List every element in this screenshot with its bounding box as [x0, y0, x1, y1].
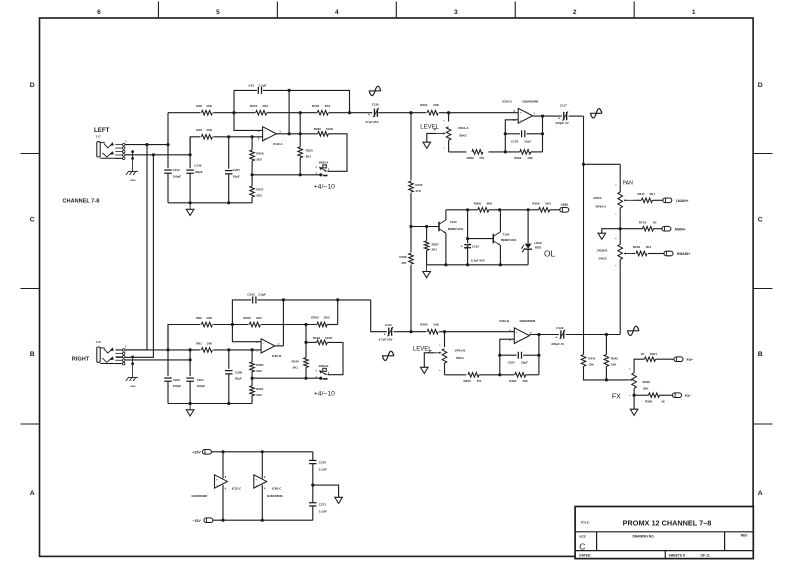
- junction: [261, 519, 264, 522]
- connector LMAIN+: [663, 198, 689, 203]
- svg-text:OL: OL: [544, 248, 556, 258]
- svg-text:D: D: [758, 82, 763, 89]
- resistor R150 2K2: [312, 104, 331, 115]
- junction: [227, 402, 230, 405]
- svg-text:R299: R299: [467, 156, 475, 160]
- svg-text:R217: R217: [638, 192, 646, 196]
- junction: [304, 377, 307, 380]
- svg-text:R261: R261: [256, 387, 264, 391]
- wire: [584, 366, 629, 380]
- svg-text:NJM4580M: NJM4580M: [523, 99, 539, 103]
- svg-text:PROMX 12 CHANNEL 7–8: PROMX 12 CHANNEL 7–8: [623, 518, 712, 527]
- wire: [305, 325, 307, 358]
- wire output: [276, 133, 300, 135]
- wire: [300, 133, 318, 135]
- junction: [537, 333, 540, 336]
- svg-text:C: C: [579, 541, 585, 551]
- resistor R260 2K2: [250, 362, 264, 373]
- junction: [231, 323, 234, 326]
- wire tip-normal to RIGHT jack: [116, 145, 147, 350]
- svg-text:REV: REV: [741, 534, 748, 538]
- svg-text:A: A: [30, 490, 35, 497]
- svg-text:100µF: 100µF: [194, 170, 203, 174]
- wire: [449, 151, 467, 153]
- svg-text:NJM4580M: NJM4580M: [192, 494, 208, 498]
- svg-text:R257: R257: [256, 187, 264, 191]
- svg-text:2K2: 2K2: [324, 315, 330, 319]
- wire +4/-10 B: [252, 377, 320, 379]
- wire: [426, 227, 428, 241]
- svg-text:10K: 10K: [206, 104, 212, 108]
- svg-text:SHEETS 6: SHEETS 6: [669, 554, 686, 558]
- junction: [227, 135, 230, 138]
- svg-text:+: +: [384, 332, 386, 336]
- svg-text:R308: R308: [474, 201, 482, 205]
- wire: [189, 381, 191, 403]
- svg-text:−: −: [256, 484, 258, 488]
- svg-text:2: 2: [573, 9, 577, 16]
- svg-text:SW50-B: SW50-B: [319, 364, 329, 368]
- wire: [444, 332, 446, 347]
- svg-text:R292: R292: [509, 379, 517, 383]
- wire: [371, 300, 387, 332]
- junction: [251, 348, 254, 351]
- svg-text:R218: R218: [633, 245, 641, 249]
- svg-text:R260: R260: [256, 363, 264, 367]
- connector -15V: [192, 518, 213, 523]
- junction: [444, 263, 447, 266]
- wire: [527, 133, 543, 135]
- wire: [634, 359, 644, 373]
- svg-text:16K: 16K: [527, 156, 533, 160]
- wire: [444, 363, 446, 375]
- potentiometer VR41-B 50KG: [439, 345, 466, 373]
- svg-text:+: +: [216, 478, 218, 482]
- svg-text:MAIN+: MAIN+: [675, 227, 686, 231]
- svg-text:4: 4: [335, 9, 339, 16]
- connector RMAIN+: [664, 251, 690, 256]
- svg-text:0.1UF: 0.1UF: [319, 510, 327, 514]
- chassis ground (RIGHT jack case): [126, 377, 138, 387]
- junction: [409, 111, 412, 114]
- svg-text:C237: C237: [508, 360, 516, 364]
- svg-text:R262: R262: [311, 315, 319, 319]
- wire output IC8-A: [533, 115, 562, 117]
- wire: [189, 174, 191, 203]
- svg-text:R236: R236: [314, 127, 322, 131]
- svg-text:R48: R48: [196, 104, 202, 108]
- svg-text:FX: FX: [612, 394, 621, 401]
- wire: [394, 331, 427, 333]
- svg-text:C: C: [758, 216, 763, 223]
- svg-text:LD29: LD29: [534, 241, 542, 245]
- svg-text:C117: C117: [560, 104, 567, 108]
- junction: [189, 402, 192, 405]
- svg-text:LEFT: LEFT: [94, 127, 110, 134]
- svg-text:+: +: [555, 335, 557, 339]
- resistor R282 20K: [420, 322, 440, 334]
- svg-text:−15V: −15V: [192, 519, 201, 523]
- wire: [232, 300, 251, 325]
- pot wiper FX: [629, 379, 633, 381]
- ground: [186, 404, 194, 417]
- wire: [653, 199, 663, 201]
- signal waveform symbol: [627, 326, 639, 335]
- wire: [633, 388, 635, 395]
- wire: [228, 137, 230, 169]
- junction: [541, 132, 544, 135]
- potentiometer VR38 50K: [629, 369, 650, 398]
- LED LD29 RED: [522, 241, 542, 252]
- label CHANNEL 7-8: [63, 199, 100, 205]
- wire: [411, 226, 439, 228]
- connector +25V: [560, 203, 569, 212]
- svg-text:DRAWING NO.: DRAWING NO.: [633, 534, 655, 538]
- resistor R163 510K: [313, 336, 333, 345]
- wire: [313, 485, 339, 497]
- svg-text:50KG: 50KG: [456, 356, 465, 360]
- svg-text:510K: 510K: [326, 127, 334, 131]
- potentiometer VR39-A 20K/C: [593, 185, 622, 216]
- junction: [299, 132, 302, 135]
- wire: [213, 324, 248, 326]
- chassis ground (LEFT jack case): [126, 171, 138, 181]
- switch SW50-B: [315, 364, 329, 380]
- svg-text:5K1: 5K1: [646, 245, 652, 249]
- wire: [445, 210, 447, 220]
- svg-text:6: 6: [97, 9, 101, 16]
- junction: [499, 263, 502, 266]
- wire: [648, 253, 664, 255]
- wire -15V rail: [213, 519, 313, 521]
- svg-text:220µF 4V: 220µF 4V: [551, 342, 564, 346]
- svg-text:2.2µF: 2.2µF: [258, 84, 266, 88]
- wire: [653, 228, 662, 230]
- svg-text:−: −: [216, 484, 218, 488]
- capacitor C161 2.2uF 50V: [461, 243, 485, 262]
- svg-text:VR41-B: VR41-B: [455, 348, 467, 352]
- svg-text:510K: 510K: [325, 336, 333, 340]
- wire: [500, 354, 517, 356]
- svg-text:47K: 47K: [401, 261, 407, 265]
- svg-text:NJM4580M: NJM4580M: [267, 494, 283, 498]
- svg-text:RMAIN+: RMAIN+: [677, 252, 690, 256]
- svg-text:C207: C207: [233, 168, 241, 172]
- svg-text:case: case: [130, 385, 136, 388]
- resistor R308 6K8: [474, 201, 493, 212]
- ground: [423, 142, 431, 148]
- resistor R309 2K2: [532, 201, 551, 212]
- wire: [312, 506, 314, 520]
- svg-text:C162: C162: [247, 292, 255, 296]
- svg-text:5K1: 5K1: [650, 192, 656, 196]
- wire: [505, 133, 520, 135]
- svg-text:C130: C130: [372, 102, 380, 106]
- svg-text:R150: R150: [312, 104, 320, 108]
- svg-text:MMBT4401: MMBT4401: [501, 238, 517, 242]
- junction: [166, 143, 169, 146]
- svg-text:RIGHT: RIGHT: [72, 357, 90, 363]
- op-amp IC8-C power: [254, 475, 283, 498]
- svg-text:R300: R300: [464, 379, 472, 383]
- resistor R202 16K: [514, 150, 533, 160]
- wire: [569, 115, 584, 117]
- capacitor C237 22pF: [508, 352, 529, 365]
- svg-text:IC80-B: IC80-B: [499, 319, 509, 323]
- wire R input ground rail: [168, 403, 252, 405]
- svg-text:VR39-A: VR39-A: [595, 205, 607, 209]
- label FX: [612, 394, 621, 401]
- wire: [228, 174, 230, 203]
- capacitor C167 100uF: [186, 378, 205, 388]
- wire: [566, 334, 621, 336]
- svg-text:+4/−10: +4/−10: [314, 184, 335, 191]
- svg-text:10K: 10K: [206, 316, 212, 320]
- svg-text:2K2: 2K2: [256, 193, 262, 197]
- resistor R201 20K: [420, 103, 440, 115]
- wire op-amp output to C61: [288, 90, 290, 133]
- svg-text:20K: 20K: [433, 322, 439, 326]
- pot wiper A: [437, 132, 446, 134]
- resistor R236 510K: [314, 127, 334, 136]
- connector J22 RIGHT input jack: [96, 341, 127, 365]
- label LEFT: [94, 127, 110, 134]
- resistor R241 10K: [581, 355, 596, 367]
- wire: [378, 112, 426, 114]
- svg-text:R179: R179: [639, 220, 647, 224]
- junction: [221, 519, 224, 522]
- svg-text:5K1: 5K1: [306, 154, 312, 158]
- wire: [167, 381, 169, 403]
- svg-text:FX+: FX+: [687, 358, 693, 362]
- wire: [499, 355, 501, 375]
- junction: [336, 298, 339, 301]
- svg-text:10K: 10K: [588, 362, 594, 366]
- svg-text:LMAIN+: LMAIN+: [676, 199, 689, 203]
- wire: [261, 485, 263, 520]
- wire: [167, 113, 169, 169]
- svg-text:LEVEL: LEVEL: [420, 124, 439, 130]
- junction: [348, 111, 351, 114]
- junction: [605, 378, 608, 381]
- capacitor C61 2.2uF: [248, 84, 266, 94]
- pot wiper B: [435, 352, 442, 354]
- resistor R49 10K: [196, 128, 213, 139]
- svg-text:50KG: 50KG: [459, 134, 468, 138]
- capacitor C130 47uF 25V: [366, 102, 380, 123]
- svg-text:NJM4580M: NJM4580M: [520, 319, 536, 323]
- resistor R261 2K2: [250, 386, 264, 397]
- junction: [145, 143, 148, 146]
- capacitor C208 20pF: [225, 371, 242, 381]
- svg-text:R205: R205: [243, 316, 251, 320]
- wire: [251, 372, 253, 378]
- svg-text:C132: C132: [556, 326, 564, 330]
- wire: [261, 324, 317, 326]
- junction: [189, 348, 192, 351]
- svg-text:+: +: [368, 113, 370, 117]
- junction: [304, 341, 307, 344]
- svg-text:C272: C272: [319, 460, 327, 464]
- wire: [479, 374, 514, 376]
- svg-text:+25V: +25V: [561, 203, 569, 207]
- svg-text:2K2: 2K2: [256, 369, 262, 373]
- wire output IC8-B: [530, 334, 559, 336]
- wire pin6: [232, 325, 261, 342]
- capacitor C111 4.7uF 25V: [379, 323, 393, 342]
- wire: [424, 353, 434, 368]
- svg-text:VR39-B: VR39-B: [597, 249, 609, 253]
- svg-text:751: 751: [477, 379, 482, 383]
- wire: [213, 136, 262, 138]
- svg-text:C61: C61: [248, 84, 254, 88]
- wire: [531, 151, 543, 153]
- wire: [619, 164, 621, 192]
- wire: [251, 175, 253, 186]
- potentiometer VR39-B 20K/C: [597, 238, 623, 267]
- junction: [299, 173, 302, 176]
- svg-text:10K: 10K: [206, 341, 212, 345]
- svg-text:C271: C271: [319, 503, 327, 507]
- wire: [527, 210, 529, 244]
- capacitor C176 22pF: [511, 130, 532, 143]
- wire: [213, 349, 261, 351]
- op-amp IC22-A: [258, 127, 284, 146]
- wire: [538, 335, 540, 375]
- wire: [499, 210, 501, 232]
- junction: [527, 208, 530, 211]
- wire: [299, 113, 301, 134]
- wire pin2 IC8-A: [505, 120, 518, 134]
- resistor R179 1K: [639, 220, 658, 231]
- junction: [251, 377, 254, 380]
- resistor R262 2K2: [311, 315, 330, 327]
- junction: [537, 354, 540, 357]
- svg-text:16K: 16K: [522, 379, 528, 383]
- resistor R240 5K1: [292, 358, 309, 370]
- wire: [504, 134, 506, 152]
- junction: [425, 225, 428, 228]
- svg-text:100µF: 100µF: [173, 174, 182, 178]
- svg-text:MMBT4401: MMBT4401: [448, 227, 464, 231]
- wire: [251, 137, 253, 150]
- capacitor C207: [225, 168, 240, 178]
- switch SW50-A: [315, 161, 329, 177]
- pot VR39-B wiper: [624, 252, 633, 254]
- resistor R259 2K2: [250, 150, 264, 161]
- connector MAIN+: [662, 226, 686, 231]
- svg-text:IC22-A: IC22-A: [273, 142, 283, 146]
- wire: [168, 112, 201, 114]
- svg-text:100µF: 100µF: [173, 384, 182, 388]
- junction: [409, 225, 412, 228]
- svg-text:R404: R404: [650, 352, 658, 356]
- svg-text:20K/C: 20K/C: [593, 196, 602, 200]
- wire: [526, 374, 539, 376]
- connector +15V: [192, 450, 211, 455]
- wire R ring: [125, 359, 190, 361]
- svg-text:A: A: [758, 490, 763, 497]
- svg-text:R225: R225: [306, 148, 314, 152]
- signal waveform symbol: [369, 86, 381, 95]
- junction: [261, 450, 264, 453]
- svg-text:R240: R240: [292, 360, 300, 364]
- svg-text:5K1: 5K1: [432, 247, 438, 251]
- svg-text:case: case: [130, 179, 136, 182]
- svg-text:CHANNEL 7-8: CHANNEL 7-8: [63, 199, 100, 205]
- wire: [251, 378, 253, 386]
- svg-text:J-22: J-22: [96, 341, 102, 344]
- svg-text:+15V: +15V: [192, 451, 201, 455]
- wire: [659, 394, 672, 396]
- wire: [619, 208, 621, 245]
- svg-text:2K2: 2K2: [262, 104, 268, 108]
- svg-text:2K2: 2K2: [256, 393, 262, 397]
- wire: [222, 452, 224, 479]
- connector FX+: [674, 357, 693, 362]
- capacitor C117 220uF 4V: [556, 104, 569, 125]
- connector J17 LEFT input jack: [96, 136, 127, 160]
- junction: [311, 484, 314, 487]
- wire: [337, 300, 339, 325]
- resistor R380 1K: [645, 393, 666, 403]
- junction: [633, 394, 636, 397]
- svg-text:FX−: FX−: [685, 394, 691, 398]
- capacitor C166 100uF: [164, 378, 181, 388]
- junction: [498, 354, 501, 357]
- wire: [263, 90, 350, 112]
- op-amp IC8-B NJM4580M: [499, 319, 535, 344]
- svg-text:+: +: [461, 244, 463, 248]
- wire: [410, 265, 412, 332]
- svg-text:R307: R307: [432, 242, 440, 246]
- pot VR39-A wiper: [624, 199, 634, 201]
- wire ring-normal to RIGHT jack: [116, 155, 153, 357]
- junction: [409, 330, 412, 333]
- svg-text:3: 3: [454, 9, 458, 16]
- wire: [261, 452, 263, 479]
- wire: [527, 249, 529, 264]
- svg-text:IC80-C: IC80-C: [272, 487, 282, 491]
- wire: [234, 90, 257, 112]
- svg-text:T104: T104: [502, 232, 509, 236]
- junction: [189, 201, 192, 204]
- svg-text:C167: C167: [197, 378, 205, 382]
- wire: [168, 325, 201, 350]
- svg-text:R91: R91: [196, 341, 202, 345]
- signal waveform symbol: [382, 351, 394, 360]
- svg-text:+4/−10: +4/−10: [314, 390, 335, 397]
- svg-text:R242: R242: [611, 356, 619, 360]
- svg-text:OF 11: OF 11: [701, 554, 710, 558]
- svg-text:PAN: PAN: [623, 180, 634, 186]
- label LEVEL B: [413, 346, 432, 352]
- junction: [447, 111, 450, 114]
- title block PROMX 12 CHANNEL 7-8: [575, 507, 753, 559]
- wire L bus down: [583, 116, 585, 354]
- junction: [227, 348, 230, 351]
- wire: [167, 325, 169, 377]
- wire R tip/pin5 line: [125, 349, 201, 351]
- resistor R166 47K: [399, 253, 413, 265]
- wire: [305, 368, 307, 379]
- svg-text:5: 5: [216, 9, 220, 16]
- wire: [327, 324, 338, 326]
- wire: [439, 331, 514, 333]
- resistor R205 2K2: [243, 316, 262, 327]
- svg-text:IC22-B: IC22-B: [272, 354, 282, 358]
- svg-text:2K2: 2K2: [256, 316, 262, 320]
